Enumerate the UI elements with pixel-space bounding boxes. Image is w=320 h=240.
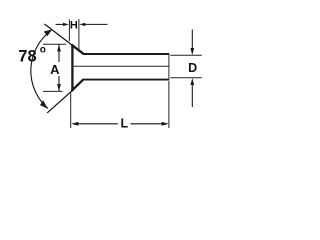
L left arrowhead [71, 122, 78, 126]
A top arrowhead [57, 44, 61, 51]
rivet head flat face [71, 44, 73, 91]
D dimension top extension line [170, 54, 202, 56]
svg-text:A: A [50, 62, 60, 77]
A dimension bottom extension line [43, 90, 63, 92]
rivet head cone top edge [72, 45, 84, 54]
H right arrow with leader [84, 23, 108, 25]
A dimension line lower segment [58, 76, 60, 91]
shank top line [83, 53, 169, 55]
shank end face [168, 53, 170, 80]
svg-text:D: D [188, 61, 197, 75]
D bottom arrow [191, 85, 193, 108]
A bottom arrowhead [57, 84, 61, 91]
H dimension left extension line [68, 19, 70, 41]
D dimension bottom extension line [170, 77, 202, 79]
angle construction line lower [47, 90, 72, 113]
arc top arrowhead [44, 29, 52, 36]
center line through shank [73, 65, 169, 67]
svg-text:78: 78 [18, 48, 36, 66]
angle construction line upper [45, 24, 73, 45]
angle dimension arc [31, 31, 51, 109]
L dimension left extension line [70, 93, 72, 129]
L dimension right extension line [168, 81, 170, 128]
D top arrow [191, 30, 193, 49]
rivet head cone bottom edge [72, 79, 84, 90]
svg-text:H: H [70, 20, 78, 32]
H left arrow [56, 23, 65, 25]
arc bottom arrowhead [40, 100, 48, 109]
shank bottom line [83, 79, 169, 81]
L dimension line right part [131, 123, 165, 125]
svg-text:L: L [120, 117, 128, 131]
svg-text:o: o [40, 45, 46, 56]
A dimension line upper segment [58, 45, 60, 62]
L dimension line left part [76, 123, 118, 125]
A dimension top extension line [43, 43, 66, 45]
H dimension right extension line [78, 19, 80, 50]
L right arrowhead [162, 122, 169, 126]
